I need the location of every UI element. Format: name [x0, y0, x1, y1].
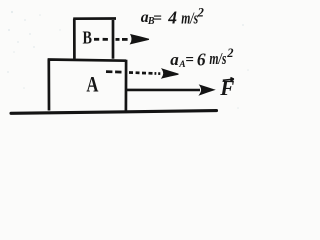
dashed acceleration arrow aB [94, 35, 149, 44]
svg-text:m/s: m/s [181, 8, 198, 27]
svg-text:2: 2 [197, 5, 204, 19]
force arrow F [127, 86, 214, 95]
svg-text:=: = [153, 10, 162, 27]
svg-text:m/s: m/s [209, 49, 226, 68]
block B [73, 18, 116, 59]
ground [11, 111, 217, 114]
svg-text:A: A [86, 73, 98, 97]
svg-text:4: 4 [167, 8, 177, 28]
svg-text:=: = [185, 51, 194, 68]
scan speckles [7, 11, 249, 109]
svg-text:B: B [82, 27, 92, 48]
svg-text:a: a [170, 50, 179, 69]
label aB = 4 m/s2 [141, 5, 204, 27]
dashed acceleration arrow aA [106, 69, 178, 78]
block A [48, 59, 127, 110]
label aA = 6 m/s2 [170, 46, 233, 70]
svg-text:6: 6 [197, 49, 206, 69]
svg-text:2: 2 [226, 46, 233, 60]
